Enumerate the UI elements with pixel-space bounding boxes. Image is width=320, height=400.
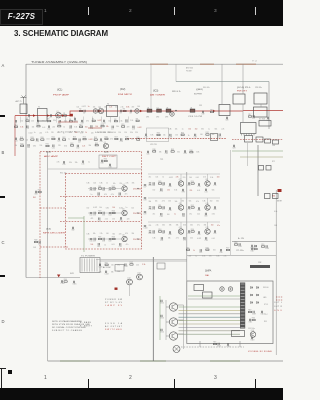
wire lamp feed 2	[166, 321, 170, 323]
margin tick CD	[0, 275, 5, 277]
svg-text:L5 R18 220: L5 R18 220	[95, 132, 113, 134]
svg-text:C103: C103	[265, 248, 269, 250]
svg-text:R38: R38	[152, 149, 155, 151]
svg-text:C64: C64	[272, 145, 275, 147]
svg-text:C21 0.022 R14 1k: C21 0.022 R14 1k	[58, 132, 84, 134]
svg-text:220: 220	[119, 233, 122, 235]
svg-text:C55: C55	[119, 220, 122, 222]
svg-text:220: 220	[115, 106, 118, 108]
wire connector stub	[239, 341, 241, 347]
connector CN1 bar	[240, 283, 245, 329]
transistor Q10	[205, 205, 210, 210]
capacitor C99	[144, 211, 146, 212]
wire right edge vertical	[275, 190, 277, 355]
svg-text:CF3: CF3	[165, 117, 168, 119]
svg-text:C19: C19	[201, 114, 204, 116]
svg-text:R6: R6	[69, 119, 71, 121]
capacitor C10	[81, 120, 82, 122]
IC U15 lamp regulator	[157, 263, 165, 269]
node stub N7	[74, 117, 76, 123]
resistor R64	[252, 319, 255, 320]
svg-text:R15: R15	[121, 124, 124, 126]
svg-text:Q4: Q4	[122, 184, 124, 186]
IC T2 IF transformer	[107, 106, 118, 117]
resistor R22	[63, 139, 66, 140]
wire dashed section box	[66, 174, 142, 250]
node stub N13	[128, 117, 130, 123]
svg-text:6.8k: 6.8k	[202, 255, 205, 257]
resistor R61	[105, 264, 108, 265]
svg-text:150: 150	[108, 120, 111, 122]
grid number bottom 2	[129, 375, 132, 381]
svg-text:C83: C83	[182, 216, 185, 218]
svg-text:C76: C76	[152, 209, 155, 211]
wire green decoder link	[68, 217, 84, 219]
svg-text:R33: R33	[95, 143, 98, 145]
svg-text:R23: R23	[73, 137, 76, 139]
svg-text:47u: 47u	[189, 213, 192, 215]
svg-text:2.2k: 2.2k	[120, 121, 123, 123]
svg-text:D11-16: D11-16	[263, 287, 268, 289]
svg-text:C12: C12	[125, 122, 128, 124]
svg-text:CF1: CF1	[146, 117, 149, 119]
capacitor C35	[63, 161, 64, 163]
model badge F-227S	[0, 9, 43, 25]
svg-text:C52 47u: C52 47u	[255, 87, 262, 89]
diode D7	[257, 302, 259, 304]
diode D3	[257, 287, 259, 289]
capacitor C26	[58, 138, 59, 140]
capacitor C88	[169, 231, 170, 233]
IC U6 de-emphasis	[256, 137, 263, 142]
svg-text:C23: C23	[232, 148, 235, 150]
svg-text:33k: 33k	[182, 201, 185, 203]
svg-text:1u: 1u	[182, 129, 184, 131]
IC T7 output transformer	[254, 107, 268, 117]
svg-text:C94: C94	[205, 240, 208, 242]
svg-text:1k: 1k	[188, 135, 190, 137]
capacitor C65	[149, 183, 151, 184]
svg-text:(IC3): (IC3)	[153, 90, 159, 93]
svg-text:3.3k: 3.3k	[74, 126, 77, 128]
svg-text:AFC AMP: AFC AMP	[44, 155, 59, 158]
svg-text:C39: C39	[194, 137, 197, 139]
wire FM signal path main	[15, 111, 243, 116]
svg-text:C51: C51	[93, 215, 96, 217]
capacitor C118	[251, 337, 252, 339]
capacitor C61	[120, 243, 121, 245]
svg-text:R41: R41	[98, 186, 101, 188]
wire IC2 down stub	[247, 143, 249, 166]
svg-text:C114: C114	[160, 332, 164, 334]
svg-text:R52: R52	[191, 205, 194, 207]
svg-text:OUT L: OUT L	[274, 302, 282, 304]
capacitor C39	[195, 134, 196, 136]
svg-text:C77: C77	[162, 209, 165, 211]
svg-text:C95: C95	[199, 252, 202, 254]
node red path marker	[57, 275, 60, 278]
svg-text:Q8: Q8	[205, 179, 207, 181]
svg-text:GND: GND	[274, 310, 283, 312]
svg-text:150: 150	[210, 200, 213, 202]
coil L1	[93, 109, 97, 113]
capacitor C38	[170, 134, 171, 136]
svg-text:470: 470	[86, 121, 89, 123]
resistor R63	[248, 311, 251, 312]
ceramic filter U3	[166, 109, 171, 112]
node stub N6	[65, 117, 67, 123]
capacitor C82	[161, 213, 162, 215]
capacitor C28	[100, 138, 101, 140]
svg-text:R37: R37	[206, 132, 209, 134]
wire decoder row link2	[103, 188, 121, 190]
capacitor C83	[183, 213, 184, 215]
wire red branch a	[58, 121, 78, 123]
transistor Q5	[122, 210, 127, 215]
svg-text:U3: U3	[166, 107, 168, 109]
IC U5 lowpass	[245, 136, 253, 143]
svg-text:C6: C6	[129, 113, 131, 115]
capacitor C1	[28, 114, 29, 116]
resistor R40	[190, 152, 193, 153]
resistor red highlight	[70, 114, 73, 117]
wire stage rail	[148, 197, 220, 199]
capacitor C103	[266, 245, 267, 247]
svg-text:C63: C63	[34, 194, 37, 196]
capacitor C19	[202, 111, 203, 113]
svg-text:C70: C70	[197, 186, 200, 188]
svg-text:R66: R66	[254, 247, 257, 249]
wire driver bus	[165, 300, 167, 340]
svg-text:100: 100	[112, 207, 115, 209]
wire green decoder drop	[83, 216, 85, 252]
IC X1 crystal	[259, 121, 271, 127]
svg-text:R9: R9	[136, 118, 138, 120]
wire driver out bus	[183, 305, 185, 349]
svg-text:VT 1-5: VT 1-5	[252, 61, 257, 63]
resistor R4	[26, 120, 29, 121]
svg-text:1u: 1u	[208, 128, 210, 130]
capacitor C33	[101, 160, 102, 162]
svg-text:33k: 33k	[201, 128, 204, 130]
svg-text:C115: C115	[217, 346, 221, 348]
antenna J1	[21, 96, 27, 104]
capacitor C6	[130, 110, 131, 112]
transistor Q11	[178, 229, 183, 234]
svg-text:(Q3): (Q3)	[104, 152, 109, 154]
svg-text:DIAL: DIAL	[205, 274, 209, 277]
IC U12 meter driver	[203, 292, 213, 298]
wire power feed	[232, 240, 276, 242]
wire left frame	[25, 64, 27, 278]
node stub N3	[38, 117, 40, 123]
svg-text:6.8k: 6.8k	[183, 224, 186, 226]
capacitor C46	[103, 187, 104, 189]
svg-text:R3: R3	[123, 109, 125, 111]
svg-text:C82: C82	[160, 216, 163, 218]
wire bottom border	[48, 360, 283, 362]
transistor Q18	[250, 332, 256, 338]
svg-text:R5: R5	[47, 119, 49, 121]
svg-text:56k: 56k	[216, 201, 219, 203]
svg-text:33k: 33k	[169, 225, 172, 227]
grid tick bottom 3	[255, 379, 256, 388]
node stub N10	[101, 117, 103, 123]
svg-text:ST-11: ST-11	[264, 304, 268, 306]
svg-text:R26: R26	[105, 136, 108, 138]
transistor lamp driver Q17	[169, 332, 177, 340]
svg-text:CF2: CF2	[156, 117, 159, 119]
svg-text:33k: 33k	[132, 183, 135, 185]
wire supply drop 1	[242, 64, 244, 94]
capacitor C40	[219, 134, 220, 136]
capacitor C77	[163, 206, 164, 208]
svg-text:470: 470	[104, 194, 107, 196]
capacitor C13	[27, 125, 28, 127]
svg-text:0.01: 0.01	[111, 244, 114, 246]
svg-text:R63: R63	[248, 310, 251, 312]
capacitor C45	[94, 187, 95, 189]
svg-text:0.022: 0.022	[169, 177, 173, 179]
svg-text:100: 100	[113, 132, 116, 134]
svg-text:C29: C29	[120, 141, 123, 143]
svg-text:C79: C79	[187, 209, 190, 211]
svg-text:C71 470u: C71 470u	[236, 250, 244, 252]
capacitor C70	[198, 183, 199, 185]
resistor R38	[153, 151, 156, 152]
svg-text:C5: C5	[119, 113, 121, 115]
capacitor C76	[153, 206, 154, 208]
diode D6	[251, 302, 253, 304]
svg-text:C74: C74	[204, 191, 207, 193]
wire stage drop 2	[207, 222, 209, 229]
wire stage rail	[148, 173, 220, 175]
svg-text:ΔMΡΑ: ΔMΡΑ	[205, 270, 212, 273]
svg-text:U4: U4	[190, 107, 192, 109]
svg-text:LAMP 8V: LAMP 8V	[105, 304, 123, 307]
svg-text:220: 220	[52, 127, 55, 129]
wire top panel feed	[96, 259, 187, 261]
node signal arrow	[213, 110, 216, 113]
svg-text:R32: R32	[70, 143, 73, 145]
capacitor C75	[149, 207, 151, 208]
svg-text:6.8k: 6.8k	[64, 145, 67, 147]
section title	[14, 29, 108, 38]
capacitor C23	[233, 145, 234, 147]
capacitor C32	[77, 145, 78, 147]
svg-text:C15: C15	[69, 128, 72, 130]
svg-text:C90: C90	[197, 234, 200, 236]
resistor R8	[114, 120, 117, 121]
capacitor C17	[112, 126, 113, 128]
transistor Q3	[103, 143, 108, 148]
svg-text:R4: R4	[26, 118, 28, 120]
wire panel feed vertical	[186, 172, 188, 281]
svg-text:E: EMITT: E: EMITT	[80, 326, 93, 328]
capacitor C101	[239, 243, 240, 245]
svg-text:R22: R22	[62, 137, 65, 139]
svg-text:R30: R30	[20, 143, 23, 145]
resistor R32	[70, 145, 73, 146]
IC front panel assembly box	[187, 281, 273, 344]
svg-text:C116: C116	[226, 346, 230, 348]
svg-text:R8: R8	[114, 119, 116, 121]
svg-text:100: 100	[106, 233, 109, 235]
svg-text:56k: 56k	[215, 129, 218, 131]
svg-text:R54: R54	[191, 229, 194, 231]
svg-text:C47: C47	[108, 190, 111, 192]
svg-text:10k: 10k	[155, 200, 158, 202]
margin tick BC	[0, 196, 5, 198]
svg-text:ST BY 5.6V: ST BY 5.6V	[105, 302, 123, 304]
capacitor C47	[109, 188, 111, 189]
resistor R2	[79, 110, 82, 111]
node signal arrow	[47, 114, 50, 117]
capacitor C110	[261, 311, 262, 313]
svg-text:56k: 56k	[212, 134, 215, 136]
svg-text:4.7k: 4.7k	[223, 256, 226, 258]
wire stage drop 1	[180, 222, 182, 229]
svg-text:47u: 47u	[126, 244, 129, 246]
node signal arrow	[33, 114, 36, 117]
svg-text:C106: C106	[98, 266, 102, 268]
wire meter bus vertical	[152, 257, 154, 361]
svg-text:C93: C93	[183, 240, 186, 242]
capacitor C58	[103, 238, 104, 240]
capacitor C66	[153, 182, 154, 184]
svg-text:47u: 47u	[153, 213, 156, 215]
resistor R41	[98, 188, 101, 189]
resistor R1	[63, 115, 66, 116]
resistor R18	[20, 139, 23, 140]
svg-text:1k: 1k	[162, 177, 164, 179]
capacitor C106	[99, 264, 100, 266]
svg-text:BUFFER: BUFFER	[194, 94, 203, 96]
svg-text:C88: C88	[168, 234, 171, 236]
capacitor C67	[163, 182, 164, 184]
capacitor C3	[74, 118, 75, 120]
svg-text:C66: C66	[152, 185, 155, 187]
wire stage drop 2	[207, 198, 209, 205]
svg-text:R16: R16	[210, 110, 213, 112]
svg-text:C53: C53	[108, 215, 111, 217]
svg-text:R41: R41	[33, 197, 36, 199]
wire stage drop 1	[180, 174, 182, 181]
wire ribbon 1	[179, 306, 241, 308]
resistor R66 red highlight	[278, 189, 282, 192]
wire frame bottom-left	[26, 277, 80, 279]
svg-text:100: 100	[217, 176, 220, 178]
resistor R46	[112, 238, 115, 239]
svg-text:Q11: Q11	[179, 227, 182, 229]
wire colored segment bottom	[60, 360, 240, 362]
resistor R7	[92, 120, 95, 121]
svg-text:R45: R45	[98, 237, 101, 239]
resistor R57	[226, 249, 229, 250]
svg-text:R31 10k: R31 10k	[60, 173, 66, 175]
capacitor C31	[53, 145, 54, 147]
wire mid horizontal	[187, 255, 277, 257]
grid tick bottom 2	[174, 379, 175, 388]
svg-text:100: 100	[189, 177, 192, 179]
svg-text:10k: 10k	[77, 107, 80, 109]
resistor R17	[248, 116, 251, 117]
svg-text:220: 220	[189, 256, 192, 258]
transformer T5 power	[80, 258, 100, 273]
svg-text:(IC6): (IC6)	[46, 152, 51, 154]
node decoder row junction	[137, 212, 138, 213]
svg-text:C64: C64	[38, 244, 41, 246]
wire dial cord dashed	[181, 346, 244, 348]
resistor R66	[254, 248, 257, 249]
svg-text:2.2k: 2.2k	[100, 233, 103, 235]
resistor R49	[158, 183, 161, 184]
svg-text:100: 100	[167, 214, 170, 216]
svg-text:100: 100	[200, 134, 203, 136]
svg-text:TUNER ASSEMBLY (GWE-058): TUNER ASSEMBLY (GWE-058)	[31, 61, 87, 64]
capacitor C36	[82, 160, 83, 162]
capacitor C92	[161, 237, 162, 239]
capacitor C80	[198, 207, 199, 209]
node stub N5	[56, 117, 58, 123]
svg-text:220: 220	[39, 132, 42, 134]
svg-text:10k: 10k	[32, 126, 35, 128]
resistor R33	[95, 145, 98, 146]
svg-text:1k: 1k	[193, 250, 195, 252]
svg-text:56k: 56k	[212, 190, 215, 192]
wire drop x151	[150, 64, 152, 108]
svg-text:100: 100	[111, 265, 114, 267]
svg-text:C96: C96	[219, 252, 222, 254]
wire decoder row link	[88, 238, 97, 240]
wire decoder row link	[88, 188, 97, 190]
capacitor C16	[91, 125, 92, 127]
svg-text:C68: C68	[274, 225, 277, 227]
capacitor C72	[161, 188, 162, 190]
svg-text:C92: C92	[160, 240, 163, 242]
svg-text:R42: R42	[112, 186, 115, 188]
svg-text:220: 220	[136, 264, 139, 266]
svg-text:6.8k: 6.8k	[87, 233, 90, 235]
svg-text:100: 100	[91, 244, 94, 246]
margin letter B	[2, 150, 5, 155]
capacitor C5	[120, 110, 121, 112]
lamp PL4 indicator	[173, 346, 180, 353]
svg-text:150: 150	[167, 190, 170, 192]
svg-text:LED: LED	[263, 297, 267, 299]
svg-text:C111: C111	[248, 322, 252, 324]
svg-text:Q5: Q5	[122, 209, 124, 211]
svg-text:R10: R10	[14, 124, 17, 126]
wire T4 drop	[260, 104, 262, 107]
svg-text:R1: R1	[63, 113, 65, 115]
svg-text:R40: R40	[190, 150, 193, 152]
svg-text:56k: 56k	[162, 225, 165, 227]
svg-text:3.3k: 3.3k	[130, 132, 133, 134]
grid number top 3	[214, 9, 217, 14]
svg-text:MPX DECODER: MPX DECODER	[43, 233, 66, 235]
svg-text:(IC4) PLL: (IC4) PLL	[237, 87, 252, 89]
svg-text:2.2k: 2.2k	[82, 145, 85, 147]
svg-text:C62: C62	[71, 230, 74, 232]
resistor R91 red highlight	[115, 288, 118, 290]
resistor R52	[191, 207, 194, 208]
svg-text:R57: R57	[226, 248, 229, 250]
svg-text:47u: 47u	[217, 225, 220, 227]
resistor R15	[122, 126, 125, 127]
svg-text:C117: C117	[250, 251, 254, 253]
wire ribbon 5	[179, 320, 241, 322]
